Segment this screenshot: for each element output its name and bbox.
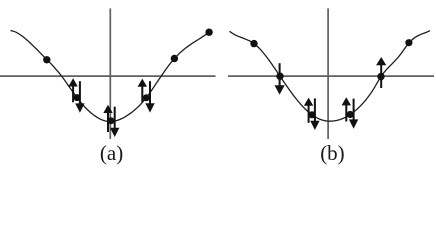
panel (a) vertical axis	[109, 8, 111, 139]
panel (b) band dispersion curve	[230, 31, 431, 122]
panel (b) horizontal axis (Fermi level line)	[228, 75, 434, 77]
electron dot, panel (b) upper-left branch	[250, 40, 257, 47]
spin-down electron at left Fermi crossing, panel (b): dot	[276, 73, 283, 80]
spin pair, panel (b) bottom left: electron dot	[308, 111, 315, 118]
panel (a) horizontal axis (Fermi level line)	[0, 75, 216, 77]
label (b)	[320, 141, 345, 166]
spin pair 3, panel (a) right: electron dot	[143, 94, 150, 101]
electron dot, panel (a) right end of curve	[205, 29, 212, 36]
spin pair, panel (b) bottom right: up arrow	[342, 97, 351, 121]
electron dot, panel (a) upper-left branch	[43, 56, 50, 63]
spin pair 2, panel (a) bottom center: up arrow	[103, 105, 112, 132]
spin pair 3, panel (a) right: up arrow	[138, 79, 147, 103]
spin pair 1, panel (a) left: down arrow	[75, 81, 84, 113]
panel (a) band dispersion curve	[11, 31, 210, 122]
electron dot, panel (b) upper-right branch	[405, 39, 412, 46]
panel (b) vertical axis	[327, 8, 329, 139]
spin pair, panel (b) bottom right: down arrow	[349, 99, 358, 129]
spin pair, panel (b) bottom left: up arrow	[304, 98, 313, 123]
spin pair 1, panel (a) left: electron dot	[74, 94, 81, 101]
spin-up electron at right Fermi crossing, panel (b): dot	[377, 73, 384, 80]
spin pair 2, panel (a) bottom center: down arrow	[110, 107, 119, 137]
label (a)	[100, 141, 123, 166]
spin pair 1, panel (a) left: up arrow	[68, 78, 77, 102]
spin pair, panel (b) bottom right: electron dot	[347, 111, 354, 118]
spin pair, panel (b) bottom left: down arrow	[310, 98, 319, 130]
spin-up electron at right Fermi crossing, panel (b): up arrow	[376, 57, 386, 88]
electron dot, panel (a) upper-right branch	[171, 55, 178, 62]
spin-down electron at left Fermi crossing, panel (b): down arrow	[275, 63, 285, 94]
spin pair 2, panel (a) bottom center: electron dot	[108, 117, 115, 124]
spin pair 3, panel (a) right: down arrow	[145, 81, 154, 112]
